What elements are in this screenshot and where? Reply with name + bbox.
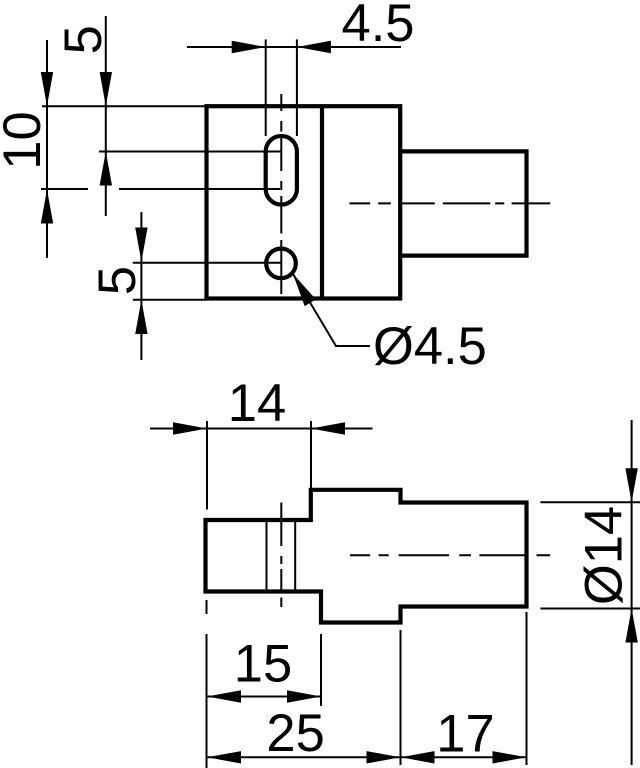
leader arrowhead at hole edge bbox=[293, 274, 316, 307]
arrowhead left bbox=[207, 751, 241, 763]
arrowhead down to top edge bbox=[100, 72, 112, 106]
arrowhead left bbox=[401, 751, 435, 763]
svg-text:4.5: 4.5 bbox=[342, 0, 415, 53]
dimension line segments at x=105.8 bbox=[105, 16, 107, 216]
extension line bottom step bbox=[320, 634, 322, 706]
extension line top edge to left bbox=[42, 105, 207, 107]
body outline front view bbox=[207, 106, 401, 298]
arrowhead pointing right inner bbox=[287, 690, 321, 702]
dimension line 25 bbox=[207, 756, 401, 758]
extension line left of slot bbox=[265, 39, 267, 136]
extension line right of slot bbox=[296, 39, 298, 136]
dimension 5 (bottom, hole position) bbox=[88, 212, 148, 360]
extension line slot top arc center bbox=[99, 151, 281, 153]
horizontal centerline of shaft (top view) bbox=[350, 202, 551, 204]
slot axis dashed (side view) bbox=[280, 503, 282, 608]
svg-text:5: 5 bbox=[88, 266, 147, 295]
svg-text:17: 17 bbox=[436, 705, 494, 764]
svg-text:10: 10 bbox=[0, 111, 52, 169]
arrowhead up bbox=[41, 190, 53, 224]
dimension line 4.5 bbox=[187, 46, 401, 48]
dimension line 17 bbox=[401, 756, 527, 758]
dimension 10 (slot bottom position) bbox=[0, 40, 53, 258]
extension line slot bottom arc center bbox=[41, 188, 88, 190]
leader line bbox=[293, 274, 370, 346]
dimension 14 (top width) bbox=[150, 374, 373, 510]
svg-text:Ø4.5: Ø4.5 bbox=[373, 317, 487, 376]
dimension 17 bbox=[401, 705, 527, 764]
arrowhead pointing left at slot right bbox=[297, 41, 331, 53]
arrowhead right bbox=[367, 751, 401, 763]
extension line shaft end below part bbox=[526, 612, 528, 765]
arrowhead down to hole center bbox=[135, 228, 147, 262]
vertical dashed axis through slot and hole bbox=[280, 94, 282, 294]
arrowhead up to slot center line bbox=[100, 152, 112, 186]
svg-text:5: 5 bbox=[54, 25, 113, 54]
arrowhead pointing right at slot left bbox=[232, 41, 266, 53]
leader for hole diameter bbox=[293, 274, 487, 376]
arrowhead pointing left inner bbox=[207, 690, 241, 702]
dimension line segments at x=141.4 bbox=[140, 212, 142, 360]
slot obround bbox=[266, 136, 297, 205]
dimension line segments at x=47 bbox=[46, 40, 48, 258]
arrowhead up bbox=[625, 609, 637, 643]
shaft outline front view bbox=[400, 151, 526, 255]
svg-text:14: 14 bbox=[228, 374, 286, 433]
dimension 25 bbox=[207, 704, 401, 764]
arrowhead pointing left at right end bbox=[311, 422, 345, 434]
arrowhead up to bottom edge bbox=[135, 300, 147, 334]
extension line bottom edge to left bbox=[133, 299, 207, 301]
dimension dia 14 (shaft) bbox=[540, 420, 640, 765]
svg-text:Ø14: Ø14 bbox=[575, 506, 634, 605]
extension line shaft top bbox=[540, 501, 640, 503]
extension line left bbox=[206, 421, 208, 510]
extension line right at step bbox=[310, 421, 312, 489]
dimension line segments at x=631.6 bbox=[631, 420, 633, 765]
extension line shaft bottom bbox=[540, 608, 640, 610]
extension line body right edge below part bbox=[400, 630, 402, 765]
horizontal centerline of shaft (side view) bbox=[350, 554, 550, 556]
extension line left edge below part bbox=[206, 600, 208, 614]
svg-text:15: 15 bbox=[234, 635, 292, 694]
arrowhead right bbox=[493, 751, 527, 763]
arrowhead pointing right at left end bbox=[173, 422, 207, 434]
slot side edge line left bbox=[266, 520, 268, 592]
dimension line 14 bbox=[150, 428, 373, 430]
dimension line 15 bbox=[207, 696, 321, 698]
hole circle bbox=[266, 249, 296, 279]
arrowhead down bbox=[41, 72, 53, 106]
flange/body separation line bbox=[320, 106, 324, 298]
dimension 15 bbox=[207, 635, 321, 703]
part outline side view bbox=[206, 490, 527, 623]
extension line hole center bbox=[133, 262, 282, 264]
dimension 5 (top, slot position) bbox=[54, 16, 113, 216]
svg-text:25: 25 bbox=[266, 704, 324, 763]
dimension 4.5 (slot width) bbox=[187, 0, 414, 136]
arrowhead down bbox=[625, 468, 637, 502]
slot side edge line right bbox=[294, 520, 296, 592]
